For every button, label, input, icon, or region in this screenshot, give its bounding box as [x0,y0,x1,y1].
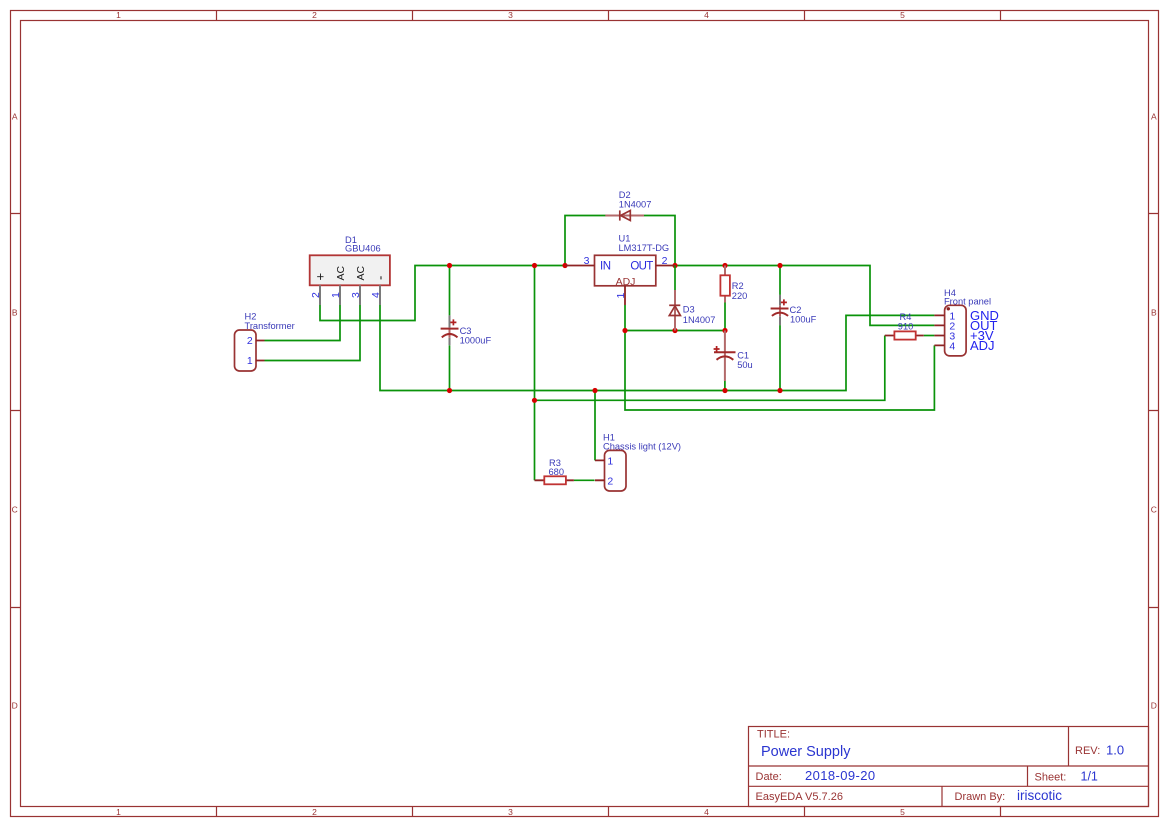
wire R4 left lead down to +3V feed rail [535,336,885,401]
svg-text:+: + [312,273,327,281]
svg-text:1: 1 [116,807,121,817]
connector H4 [934,305,966,356]
svg-text:4: 4 [704,10,709,20]
wire R3 right lead to H1 pin2 [574,479,595,481]
H4 pin stubs [934,315,944,345]
svg-text:IN: IN [600,261,611,273]
svg-text:1: 1 [615,293,627,299]
H1 body [605,450,627,491]
svg-text:C2: C2 [790,305,802,315]
H4 body [945,305,967,356]
svg-text:EasyEDA V5.7.26: EasyEDA V5.7.26 [756,791,843,803]
svg-text:1: 1 [247,355,253,367]
H2 pin stubs [256,341,265,361]
svg-text:3: 3 [508,10,513,20]
svg-text:AC: AC [335,265,347,280]
H2 body [235,330,257,371]
wire U1 ADJ pin down to ADJ node [624,305,626,331]
svg-text:ADJ: ADJ [616,276,636,288]
svg-text:C: C [1151,505,1157,515]
wire ADJ node down and right to H4 pin4 [625,331,934,411]
svg-text:1N4007: 1N4007 [619,200,652,210]
wire C1 bottom lead [724,381,726,391]
svg-text:4: 4 [949,340,955,352]
wire GND rail down to H1 pin1 [594,391,596,461]
resistor R3 [535,476,574,484]
wire C3 bottom lead [449,345,451,390]
junction OUT at R2 top [722,263,727,268]
svg-text:220: 220 [732,291,748,301]
svg-text:Sheet:: Sheet: [1035,772,1067,784]
wire H2 pin1 to D1 AC pin3 [265,305,361,361]
resistor R2 [720,266,730,303]
svg-text:Transformer: Transformer [245,321,295,331]
regulator U1 [566,255,676,305]
D1 body [310,255,390,285]
junction ADJ at D3 bottom [672,328,677,333]
wire D1 plus pin to VIN rail [320,266,565,321]
wire C3 top lead [449,266,451,316]
svg-text:680: 680 [549,467,565,477]
junction VIN at R3 branch [532,263,537,268]
capacitor C1 [714,331,736,382]
svg-text:3: 3 [508,807,513,817]
wire VIN rail down to R3 left lead [534,266,536,481]
junction GND at C3 bottom [447,388,452,393]
wire D1 minus pin GND rail to H4 pin1 [380,305,934,391]
U1 pin stubs [566,266,676,306]
wire C2 top lead [779,266,781,295]
svg-text:REV:: REV: [1075,745,1100,757]
svg-text:A: A [1151,112,1157,122]
svg-text:D2: D2 [619,190,631,200]
svg-text:1: 1 [330,292,342,298]
svg-text:OUT: OUT [630,261,653,273]
svg-text:1/1: 1/1 [1081,770,1098,784]
resistor R4 [885,331,924,339]
U1 body [595,255,656,285]
svg-text:Date:: Date: [756,771,782,783]
svg-text:GBU406: GBU406 [345,244,381,254]
junction GND at C1 bottom [722,388,727,393]
svg-text:D: D [1151,701,1157,711]
wire ADJ node to D3 and R2 bottom [625,330,725,332]
svg-text:LM317T-DG: LM317T-DG [619,243,670,253]
svg-text:C: C [12,505,18,515]
junction GND at C2 bottom [777,388,782,393]
diode D2 [605,210,644,220]
junction ADJ at R2/C1 [722,328,727,333]
junction VIN at C3 top [447,263,452,268]
H1 pin stubs [595,460,605,480]
capacitor C2 [771,295,789,325]
svg-text:H2: H2 [245,312,257,322]
svg-text:5: 5 [900,807,905,817]
svg-text:R4: R4 [900,312,912,322]
junction ADJ at U1 ADJ pin [622,328,627,333]
title block [749,727,1149,807]
svg-text:4: 4 [704,807,709,817]
svg-text:C3: C3 [460,326,472,336]
svg-text:iriscotic: iriscotic [1017,788,1062,803]
capacitor C3 [441,315,459,345]
svg-text:3: 3 [584,255,590,267]
svg-text:U1: U1 [619,234,631,244]
svg-text:2: 2 [607,475,613,487]
svg-text:-: - [372,276,387,280]
junction VIN at U1 IN / D2 [562,263,567,268]
svg-text:D3: D3 [683,305,695,315]
svg-text:4: 4 [370,292,382,298]
bridge rectifier D1 [310,255,390,305]
svg-text:2: 2 [312,807,317,817]
wire VIN rail to D2 anode side [565,216,606,266]
svg-text:Power Supply: Power Supply [761,744,851,760]
D1 pin names [312,265,387,280]
wire C2 bottom lead [779,325,781,390]
svg-text:D: D [12,701,18,711]
svg-text:1: 1 [607,455,613,467]
wire R4 right lead to H4 pin3 [924,335,935,337]
svg-text:A: A [12,112,18,122]
wire R2 bottom lead [724,303,726,331]
svg-text:Drawn By:: Drawn By: [955,791,1006,803]
svg-text:ADJ: ADJ [970,338,995,353]
svg-text:2: 2 [662,255,668,267]
svg-text:1.0: 1.0 [1106,743,1124,758]
svg-text:Front panel: Front panel [944,297,991,307]
svg-text:50u: 50u [737,360,753,370]
wire D2 cathode side down to OUT node [644,216,675,266]
svg-text:1000uF: 1000uF [460,336,492,346]
wire H2 pin2 to D1 AC pin1 [265,305,341,341]
svg-text:B: B [1151,308,1157,318]
wire OUT rail to H4 pin2 [675,266,934,326]
svg-text:1: 1 [116,10,121,20]
svg-text:1N4007: 1N4007 [683,315,716,325]
svg-text:Chassis light (12V): Chassis light (12V) [603,442,681,452]
connector H1 [595,450,626,491]
svg-text:TITLE:: TITLE: [757,729,790,741]
svg-text:C1: C1 [737,351,749,361]
svg-text:AC: AC [355,265,367,280]
junction OUT at U1 OUT / D2 / D3 [672,263,677,268]
D1 pins [320,285,380,305]
junction OUT at C2 top [777,263,782,268]
diode D3 [669,266,680,331]
svg-text:2: 2 [247,335,253,347]
svg-text:R2: R2 [732,281,744,291]
svg-text:3: 3 [350,292,362,298]
H4 pin1 marker [947,307,950,310]
svg-text:100uF: 100uF [790,315,817,325]
junction +3V feed at R3 riser [532,398,537,403]
svg-text:2018-09-20: 2018-09-20 [805,768,876,783]
svg-text:2: 2 [312,10,317,20]
junction GND at H1 branch [592,388,597,393]
svg-text:5: 5 [900,10,905,20]
svg-text:910: 910 [898,322,914,332]
svg-text:B: B [12,308,18,318]
svg-text:2: 2 [310,292,322,298]
connector H2 [235,330,265,371]
